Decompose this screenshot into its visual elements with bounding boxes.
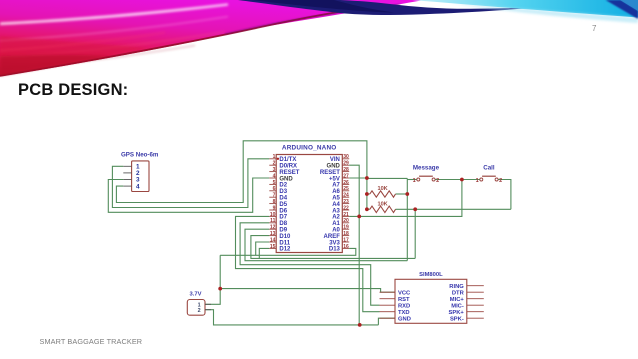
svg-text:MIC-: MIC-	[451, 303, 464, 309]
wire GPS4 to +5V loop	[116, 141, 367, 210]
svg-text:16: 16	[343, 244, 349, 250]
svg-text:RESET: RESET	[320, 170, 340, 176]
svg-text:A1: A1	[332, 221, 340, 227]
svg-text:2: 2	[436, 178, 439, 184]
svg-text:D4: D4	[279, 196, 287, 202]
pin 3 RESET	[269, 167, 299, 176]
svg-text:3.7V: 3.7V	[190, 292, 202, 298]
pin 2 D0/RX	[269, 161, 297, 170]
svg-text:10: 10	[270, 212, 276, 218]
pin 1 connection mark	[277, 158, 279, 160]
svg-text:A7: A7	[332, 183, 340, 189]
wire D13 to battery bus	[220, 248, 356, 255]
wire R2 right lead to Call loop	[396, 208, 511, 210]
svg-text:7: 7	[273, 193, 276, 199]
wire D10 bus to R2 branch	[251, 236, 415, 259]
wire +5V pin27 to Message corner	[349, 177, 367, 179]
wire battery plus riser	[205, 255, 220, 304]
svg-text:GND: GND	[279, 176, 293, 182]
svg-text:TXD: TXD	[398, 310, 410, 316]
pin MIC+	[450, 297, 484, 303]
pin 24 A5	[332, 193, 349, 202]
node button mid node	[460, 178, 464, 182]
pin RST	[380, 297, 411, 303]
wire battery to SIM VCC	[220, 289, 395, 293]
resistor R1 10K	[370, 186, 396, 197]
svg-text:D0/RX: D0/RX	[279, 164, 297, 170]
pin 14 D11	[269, 237, 290, 246]
wire Message right lead	[435, 179, 462, 181]
node GND bottom node	[358, 323, 362, 327]
svg-text:A0: A0	[332, 228, 340, 234]
svg-text:25: 25	[343, 186, 349, 192]
svg-text:D6: D6	[279, 208, 287, 214]
pin 27 +5V	[329, 173, 349, 182]
svg-text:D8: D8	[279, 221, 287, 227]
node GND A2 node	[357, 215, 361, 219]
node R1 left node	[365, 192, 369, 196]
pin TXD	[380, 310, 410, 316]
wire +5V row continuation	[367, 177, 407, 179]
wire A2 pin21 to buttons	[349, 180, 462, 217]
pin VCC	[380, 290, 412, 296]
pin DTR	[452, 290, 484, 296]
pin RING	[449, 284, 484, 290]
svg-text:Call: Call	[483, 164, 495, 171]
svg-text:29: 29	[343, 161, 349, 167]
svg-text:13: 13	[270, 231, 276, 237]
svg-text:3V3: 3V3	[329, 240, 340, 246]
svg-text:4: 4	[273, 173, 276, 179]
svg-text:8: 8	[273, 199, 276, 205]
svg-text:1: 1	[476, 178, 479, 184]
svg-text:SIM800L: SIM800L	[419, 272, 443, 278]
svg-text:6: 6	[273, 186, 276, 192]
pin 5 D2	[269, 180, 287, 189]
pin 23 A4	[332, 199, 349, 208]
wire GND pin29 rail	[349, 165, 359, 325]
svg-text:11: 11	[270, 218, 276, 224]
svg-text:3: 3	[273, 167, 276, 173]
svg-text:15: 15	[270, 244, 276, 250]
wire R1 left lead	[367, 193, 370, 195]
SIM800L module	[395, 272, 467, 323]
svg-text:AREF: AREF	[324, 234, 341, 240]
svg-text:D1/TX: D1/TX	[279, 157, 296, 163]
svg-text:18: 18	[343, 231, 349, 237]
wire battery minus to ground run	[205, 310, 378, 325]
wire D7 bus to SIM TXD	[236, 216, 380, 311]
svg-text:10K: 10K	[377, 186, 387, 192]
pin 29 GND	[327, 161, 350, 170]
svg-text:A6: A6	[332, 189, 340, 195]
svg-text:2: 2	[198, 308, 201, 314]
node +5V node	[365, 176, 369, 180]
svg-text:Message: Message	[413, 164, 440, 171]
svg-text:9: 9	[273, 205, 276, 211]
pin 26 A7	[332, 180, 349, 189]
wire Message left lead	[407, 179, 417, 181]
wire D8 bus to SIM RXD	[240, 223, 379, 305]
svg-text:30: 30	[343, 154, 349, 160]
svg-text:4: 4	[136, 183, 140, 190]
svg-text:1: 1	[413, 178, 416, 184]
pin 8 D5	[269, 199, 287, 208]
svg-text:5: 5	[273, 180, 276, 186]
svg-text:ARDUINO_NANO: ARDUINO_NANO	[282, 145, 337, 152]
svg-text:27: 27	[343, 173, 349, 179]
svg-text:26: 26	[343, 180, 349, 186]
svg-text:17: 17	[343, 237, 349, 243]
pin 4 GND	[269, 173, 293, 182]
banner swoosh	[0, 0, 638, 100]
wire R2 left lead	[367, 208, 370, 210]
wire GPS1 to D1/TX	[112, 159, 269, 208]
svg-text:+5V: +5V	[329, 176, 340, 182]
wire D12 riser to R2 bus	[259, 248, 269, 258]
GPS module GPS Neo-6m	[121, 152, 159, 192]
svg-text:D7: D7	[279, 215, 287, 221]
wire R1 right lead	[396, 193, 408, 195]
svg-text:A2: A2	[332, 215, 340, 221]
wire Call loop vertical	[498, 180, 511, 210]
svg-text:SPK+: SPK+	[448, 310, 464, 316]
pin 20 A1	[332, 218, 349, 227]
pin 18 AREF	[324, 231, 350, 240]
svg-text:RXD: RXD	[398, 303, 410, 309]
svg-text:A3: A3	[332, 208, 340, 214]
node battery plus node	[218, 287, 222, 291]
pin 12 D9	[269, 225, 287, 234]
svg-text:SPK-: SPK-	[450, 316, 464, 322]
wire SIM GND jog	[378, 318, 395, 325]
svg-text:VIN: VIN	[330, 157, 340, 163]
switch S1 Message push button	[413, 164, 440, 184]
svg-text:D2: D2	[279, 183, 287, 189]
svg-text:D13: D13	[329, 247, 341, 253]
wire GPS3 to GND pin4	[108, 178, 269, 212]
wire D11 riser to battery bus	[256, 242, 270, 255]
svg-text:D10: D10	[279, 234, 291, 240]
pin SPK-	[450, 316, 484, 322]
pin MIC-	[451, 303, 484, 309]
svg-text:12: 12	[270, 225, 276, 231]
op-amp U1 ARDUINO_NANO	[276, 145, 342, 253]
svg-text:D3: D3	[279, 189, 287, 195]
wire Call left lead	[462, 179, 480, 181]
pin 19 A0	[332, 225, 349, 234]
svg-text:24: 24	[343, 193, 349, 199]
svg-text:RST: RST	[398, 297, 410, 303]
pin 7 D4	[269, 193, 287, 202]
svg-text:23: 23	[343, 199, 349, 205]
svg-text:28: 28	[343, 167, 349, 173]
svg-text:RING: RING	[449, 284, 464, 290]
node R2 left node	[365, 207, 369, 211]
switch S2 Call push button	[476, 164, 503, 184]
wire Message branch vertical	[406, 178, 408, 260]
pin 10 D7	[269, 212, 287, 221]
svg-text:2: 2	[499, 178, 502, 184]
svg-text:GND: GND	[327, 164, 341, 170]
pin 30 VIN	[330, 154, 349, 163]
node R2 right node	[413, 207, 417, 211]
pin 28 RESET	[320, 167, 349, 176]
pin 1 D1/TX	[269, 154, 296, 163]
svg-text:14: 14	[270, 237, 276, 243]
pin 11 D8	[269, 218, 287, 227]
svg-text:20: 20	[343, 218, 349, 224]
pin RXD	[380, 303, 411, 309]
svg-text:D9: D9	[279, 228, 287, 234]
svg-text:21: 21	[343, 212, 349, 218]
pin 22 A3	[332, 205, 349, 214]
svg-text:VCC: VCC	[398, 290, 411, 296]
pin 13 D10	[269, 231, 291, 240]
pin SPK+	[448, 310, 483, 316]
svg-text:1: 1	[273, 154, 276, 160]
resistor R2 10K	[370, 202, 396, 213]
pin 25 A6	[332, 186, 349, 195]
svg-text:GPS Neo-6m: GPS Neo-6m	[121, 152, 159, 159]
svg-text:MIC+: MIC+	[450, 297, 465, 303]
pin 15 D12	[269, 244, 291, 253]
svg-text:10K: 10K	[377, 202, 387, 208]
svg-text:19: 19	[343, 225, 349, 231]
svg-text:D5: D5	[279, 202, 287, 208]
wire D9 bus to Message branch	[245, 229, 407, 261]
battery 3.7V	[187, 292, 211, 316]
pin 16 D13	[329, 244, 349, 253]
svg-text:RESET: RESET	[279, 170, 299, 176]
svg-text:A4: A4	[332, 202, 340, 208]
node R1 right node	[405, 192, 409, 196]
pin 6 D3	[269, 186, 287, 195]
svg-text:GND: GND	[398, 316, 411, 322]
wire R2 branch vertical	[414, 209, 416, 258]
pin GND	[380, 316, 411, 322]
svg-text:D12: D12	[279, 247, 291, 253]
pin 21 A2	[332, 212, 349, 221]
svg-text:22: 22	[343, 205, 349, 211]
pin 9 D6	[269, 205, 287, 214]
svg-text:DTR: DTR	[452, 290, 465, 296]
svg-text:A5: A5	[332, 196, 340, 202]
svg-text:2: 2	[273, 161, 276, 167]
pin 17 3V3	[329, 237, 349, 246]
svg-text:D11: D11	[279, 240, 290, 246]
